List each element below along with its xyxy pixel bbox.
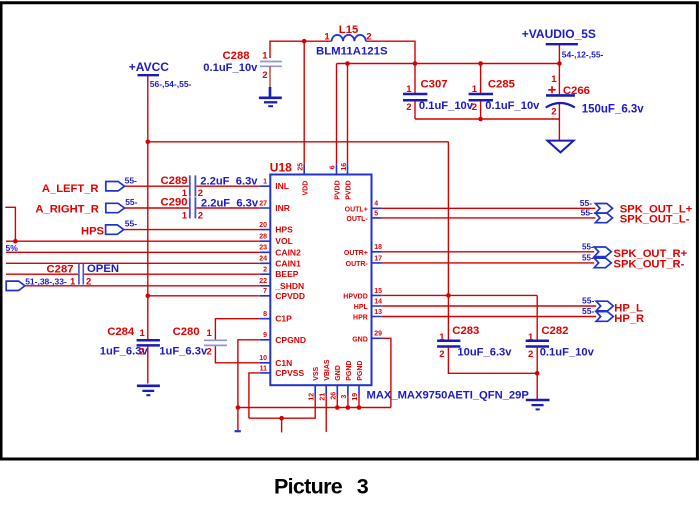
power symbol +VAUDIO_5S [546,43,578,45]
ground under C282 [526,400,550,409]
svg-text:20: 20 [259,222,267,229]
wire C283 bottom rail [448,348,537,374]
wire AVCC stem down to C284 [147,76,149,340]
ground under C284 [137,386,160,395]
svg-text:C307: C307 [421,79,448,91]
svg-text:1: 1 [406,84,412,95]
svg-text:A_LEFT_R: A_LEFT_R [42,183,99,195]
wire HPL row [382,305,596,307]
svg-text:0.1uF_10v: 0.1uF_10v [419,100,474,112]
wire C266 column [558,64,560,141]
wire INL row [125,185,260,187]
wire VBIAS pin21 down [325,396,327,432]
svg-text:C1N: C1N [275,358,292,368]
node GND26 junction [335,405,340,410]
capacitor C288 [260,62,282,67]
svg-text:HP_R: HP_R [614,313,644,325]
svg-text:54-,12-,55-: 54-,12-,55- [562,49,604,59]
capacitor C287 [79,264,83,285]
svg-text:27: 27 [259,200,267,207]
svg-text:13: 13 [374,309,382,316]
svg-text:BEEP: BEEP [275,269,298,279]
svg-text:1: 1 [324,31,330,42]
svg-text:VOL: VOL [275,236,292,246]
wire PGND pin19 stub [358,396,360,408]
port SPK_OUT_L+ [595,204,612,214]
capacitor C289 [190,175,196,196]
svg-text:2: 2 [439,349,444,360]
svg-text:55-: 55- [582,242,594,251]
svg-text:0.1uF_10v: 0.1uF_10v [540,346,595,358]
node CPVDD junction [146,294,151,299]
svg-text:0.1uF_10v: 0.1uF_10v [203,62,258,74]
svg-text:5: 5 [374,210,378,217]
wire HPVDD drop to C283 [447,142,449,341]
svg-text:OPEN: OPEN [87,263,119,275]
wire C282 top drop [536,295,538,340]
svg-text:C290: C290 [161,197,188,209]
node PGND19 junction [357,405,362,410]
svg-text:1: 1 [207,328,213,339]
wire HPS row [124,229,260,231]
svg-text:1uF_6.3v: 1uF_6.3v [159,346,208,358]
svg-text:U18: U18 [270,160,292,174]
ground triangle under C266 [547,141,573,153]
svg-text:PVDD: PVDD [345,180,352,199]
capacitor C282 [526,341,549,347]
svg-text:C283: C283 [452,325,479,337]
svg-text:HPS: HPS [81,226,105,238]
svg-text:51-,38-,33-: 51-,38-,33- [25,276,67,286]
svg-text:_SHDN: _SHDN [274,281,304,291]
svg-text:CAIN2: CAIN2 [275,247,301,257]
svg-text:4: 4 [374,201,378,208]
svg-text:14: 14 [374,298,382,305]
svg-text:0.1uF_10v: 0.1uF_10v [485,100,540,112]
wire C280 bottom to C1N [215,346,259,363]
svg-text:9: 9 [263,332,267,339]
IC U18 pin stubs [260,164,382,395]
wire HPR row [382,316,596,318]
port HPS [106,225,124,234]
svg-text:26: 26 [331,392,338,400]
svg-text:C288: C288 [223,50,250,62]
capacitor C284 [137,340,160,345]
svg-text:5%: 5% [6,243,19,253]
svg-text:GND: GND [335,365,342,381]
wire VDD pin25 drop from junction [303,41,305,164]
svg-text:12: 12 [308,393,315,401]
node VDD/AVCC junction [302,39,307,44]
wire PVDD pin16 drop [347,64,349,165]
wire OUTR+ row [382,251,594,253]
wire L15 output to rail2 [366,41,415,63]
svg-text:OUTL+: OUTL+ [345,206,368,213]
svg-text:22: 22 [259,278,267,285]
wire C307 column [414,64,416,120]
wire VSS rail [249,396,315,419]
svg-text:2: 2 [262,70,267,81]
svg-text:150uF_6.3v: 150uF_6.3v [582,103,645,115]
svg-text:INR: INR [275,203,290,213]
svg-text:BLM11A121S: BLM11A121S [316,46,388,58]
svg-text:1: 1 [70,276,76,287]
svg-text:VSS: VSS [313,366,320,380]
svg-text:1: 1 [182,211,188,222]
port A_LEFT_R [106,182,125,191]
svg-text:CPVSS: CPVSS [275,368,304,378]
svg-text:6: 6 [330,165,337,169]
svg-text:1: 1 [140,328,146,339]
svg-text:SPK_OUT_R-: SPK_OUT_R- [614,258,685,270]
capacitor C290 [190,197,196,218]
svg-text:2: 2 [86,276,91,287]
capacitor C283 [437,341,460,347]
svg-text:CPGND: CPGND [275,335,306,345]
node C282 bottom junction [535,371,540,376]
node VSS rail junction [279,416,284,421]
svg-text:2: 2 [263,267,267,274]
svg-text:1: 1 [528,332,534,343]
wire VAUDIO stem [558,45,560,64]
svg-text:2: 2 [366,31,371,42]
svg-text:1: 1 [262,51,268,62]
svg-text:+VAUDIO_5S: +VAUDIO_5S [522,27,596,41]
wire PGND pin3 stub [347,396,349,408]
svg-text:OUTL-: OUTL- [346,216,368,223]
svg-text:21: 21 [319,393,326,401]
wire GND pin29 route [382,338,391,407]
svg-text:55-: 55- [125,218,137,228]
port SPK_OUT_R- [594,258,611,268]
port HP_L [596,301,613,311]
wire OUTL- row [382,217,596,219]
svg-text:10uF_6.3v: 10uF_6.3v [457,346,512,358]
wire C284 bottom to ground [147,346,149,384]
port A_RIGHT_R [106,203,125,212]
node AVCC rail junction [146,140,151,145]
svg-text:INL: INL [275,181,289,191]
svg-text:CPVDD: CPVDD [275,291,305,301]
blue tick at CPGND stub end [235,430,241,432]
svg-text:2: 2 [551,106,556,117]
svg-text:2.2uF_6.3v: 2.2uF_6.3v [200,175,258,187]
node VOL branch junction [13,239,18,244]
IC U18 body [270,175,371,386]
wire BEEP row through C287 [6,273,260,275]
svg-text:+AVCC: +AVCC [129,60,169,74]
wire _SHDN row [25,285,260,287]
svg-text:23: 23 [259,245,267,252]
wire CPVSS down [249,373,260,418]
wire CPGND pin9 down [238,340,260,430]
svg-text:VBIAS: VBIAS [324,359,331,381]
capacitor C266 polarized [546,95,575,107]
plus sign of C266 [548,86,555,93]
svg-text:MAX_MAX9750AETI_QFN_29P: MAX_MAX9750AETI_QFN_29P [367,389,530,401]
wire PVDD pin6 drop [336,64,338,165]
wire CAIN2 row [6,251,260,253]
wire GND pin26 stub [336,396,338,408]
wire CAIN1 row [6,262,260,264]
wire rail3 below caps [415,118,559,120]
wire C288 to ground [269,66,271,87]
node PVDD16 junction [345,61,350,66]
svg-text:C266: C266 [563,85,590,97]
svg-text:GND: GND [352,336,368,343]
port HP_R [596,312,613,322]
svg-text:2: 2 [472,102,477,113]
svg-text:24: 24 [259,256,267,263]
svg-text:HPL: HPL [354,304,369,311]
svg-text:PGND: PGND [357,361,364,381]
wire C282 bottom to ground [536,348,538,400]
svg-text:2: 2 [140,347,145,358]
svg-text:C287: C287 [47,263,74,275]
svg-text:2: 2 [198,211,203,222]
svg-text:55-: 55- [582,296,594,306]
svg-text:55-: 55- [125,197,137,207]
node rail3 C285 junction [478,117,483,122]
wire stub below VSS rail [281,418,283,432]
svg-text:2: 2 [528,349,533,360]
svg-text:16: 16 [341,163,348,171]
wire C285 column [480,64,482,120]
svg-text:1: 1 [472,84,478,95]
svg-text:18: 18 [374,244,382,251]
svg-text:Picture3: Picture3 [274,475,369,499]
svg-text:C280: C280 [173,326,200,338]
wire rail2 PVDD/VAUDIO [337,63,560,65]
svg-text:55-: 55- [582,253,594,262]
svg-text:15: 15 [374,288,382,295]
svg-text:C282: C282 [541,325,568,337]
capacitor C280 [204,340,227,345]
svg-text:7: 7 [263,288,267,295]
node C307 junction [413,61,418,66]
port 51-,38-,33- [6,281,25,290]
wire OUTR- row [382,262,594,264]
svg-text:28: 28 [259,234,267,241]
svg-text:25: 25 [298,163,305,171]
svg-text:2.2uF_6.3v: 2.2uF_6.3v [201,198,259,210]
wire INR row [125,207,260,209]
svg-text:HPR: HPR [353,315,368,322]
wire rail y=141.8 [148,141,449,143]
svg-text:1: 1 [551,74,557,85]
svg-text:55-: 55- [582,306,594,316]
node CPGND rail junction [236,405,241,410]
wire CPVDD pin7 [148,295,260,297]
svg-text:PGND: PGND [346,361,353,381]
svg-text:C289: C289 [161,175,188,187]
capacitor C307 [403,94,427,100]
svg-text:HPS: HPS [275,225,293,235]
wire VOL row [6,240,260,242]
svg-text:11: 11 [260,365,268,372]
wire PGND rail [238,407,391,409]
svg-text:56-,54-,55-: 56-,54-,55- [150,79,192,89]
power symbol +AVCC [138,74,160,76]
port SPK_OUT_R+ [594,247,611,257]
svg-text:VDD: VDD [303,181,310,196]
svg-text:C285: C285 [488,79,515,91]
svg-text:55-: 55- [125,175,137,185]
wire C280 top to C1P [215,319,259,340]
node HPVDD junction [446,293,451,298]
node C285 junction [478,61,483,66]
wire C288 top to AVCC/L15 rail [270,41,332,58]
inductor L15 [332,35,366,41]
svg-text:55-: 55- [580,198,592,208]
port SPK_OUT_L- [595,213,612,223]
ground under C288 [259,87,282,106]
svg-text:HPVDD: HPVDD [343,293,368,300]
svg-text:PVDD: PVDD [334,180,341,199]
svg-text:CAIN1: CAIN1 [275,258,301,268]
svg-text:A_RIGHT_R: A_RIGHT_R [35,204,98,216]
svg-text:C1P: C1P [275,314,292,324]
capacitor C285 [469,94,493,100]
svg-text:2: 2 [406,102,411,113]
svg-text:C284: C284 [107,326,135,338]
svg-text:OUTR+: OUTR+ [344,250,368,257]
svg-text:1: 1 [439,332,445,343]
svg-text:3: 3 [341,395,348,399]
node VAUDIO junction [557,61,562,66]
svg-text:17: 17 [374,255,382,262]
wire HPVDD row [382,294,537,296]
svg-text:55-: 55- [581,207,593,217]
svg-text:OUTR-: OUTR- [346,261,369,268]
svg-text:SPK_OUT_L-: SPK_OUT_L- [620,213,690,225]
svg-text:10: 10 [259,355,267,362]
svg-text:2: 2 [207,347,212,358]
node PGND3 junction [346,405,351,410]
svg-text:19: 19 [352,393,359,401]
wire OUTL+ row [382,207,596,209]
svg-text:L15: L15 [339,24,358,36]
svg-text:8: 8 [263,311,267,318]
svg-text:29: 29 [374,331,382,338]
wire VOL branch to left edge [5,207,15,241]
svg-text:1: 1 [263,179,267,186]
